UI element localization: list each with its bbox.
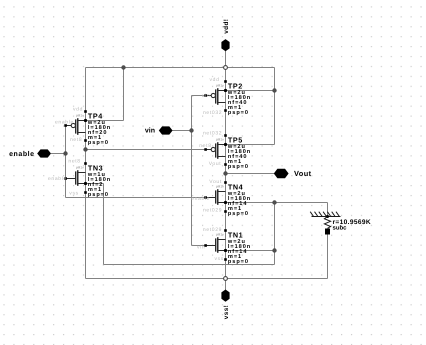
- NMOS transistor TN4: [191, 179, 251, 217]
- wire net032 TP2 to TP5: [225, 111, 227, 136]
- wire right vdd bulk rail vertical: [274, 68, 276, 145]
- node vdd connection circle: [224, 66, 228, 70]
- svg-text:pM1v: pM1v: [216, 184, 224, 188]
- wire resistor top lead: [327, 203, 329, 217]
- junction enable node: [63, 151, 67, 155]
- wire net029 TN4 to TN1: [225, 212, 227, 231]
- junction Vout node: [223, 171, 227, 175]
- wire enable riser TP4 gate to TN3 gate and below: [65, 126, 67, 198]
- junction TN1 bulk: [272, 248, 276, 252]
- wire TN4 bulk horizontal: [226, 202, 275, 204]
- wire vss pin stem: [225, 279, 227, 290]
- svg-text:net8: net8: [68, 158, 80, 164]
- NMOS transistor TN3: [48, 158, 111, 198]
- wire TP4 bulk horizontal: [86, 120, 124, 122]
- pin enable: [9, 149, 51, 158]
- wire TP5 bulk to rail: [226, 144, 275, 146]
- svg-text:pM1v: pM1v: [216, 83, 224, 87]
- substrate hatch bar: [310, 212, 340, 217]
- svg-text:TP2: TP2: [228, 81, 243, 90]
- PMOS transistor TP4: [55, 106, 111, 146]
- wire vdd pin stem: [225, 51, 227, 68]
- svg-text:TN1: TN1: [228, 230, 243, 239]
- wire TP4 bulk riser vertical: [123, 68, 125, 121]
- wire TN1 bulk down: [274, 251, 276, 265]
- wire TN3 source to vss rail: [85, 193, 87, 279]
- wire vin pin to junction: [172, 130, 191, 132]
- svg-text:Vout: Vout: [294, 169, 312, 178]
- node vss connection circle: [224, 277, 228, 281]
- junction bulk net / resistor: [272, 200, 276, 204]
- svg-text:TP5: TP5: [228, 135, 243, 144]
- wire TN3 bulk stub horizontal: [86, 183, 104, 185]
- svg-text:vdd: vdd: [73, 106, 83, 112]
- junction vin node: [189, 128, 193, 132]
- pin Vout: [274, 169, 312, 179]
- wire net8 TP4 drain to TN3 drain: [85, 141, 87, 164]
- wire enable to TN4 gate horizontal: [66, 197, 206, 199]
- wire vdd circle to TP2 top: [225, 68, 227, 82]
- svg-text:vss!: vss!: [223, 305, 230, 319]
- svg-text:psp=0: psp=0: [228, 259, 249, 265]
- subc substrate contact square: [325, 229, 330, 235]
- svg-text:net032: net032: [203, 131, 222, 137]
- svg-text:pM1v: pM1v: [76, 165, 84, 169]
- svg-text:TN3: TN3: [88, 163, 103, 172]
- svg-text:enable: enable: [191, 196, 210, 202]
- pin vdd!: [221, 19, 229, 52]
- PMOS transistor TP2: [202, 77, 251, 116]
- wire vin riser vertical: [191, 96, 193, 246]
- svg-text:enable: enable: [48, 176, 67, 182]
- wire Vout junction to pin: [226, 173, 275, 175]
- svg-text:psp=0: psp=0: [88, 140, 109, 146]
- wire enable pin to junction: [51, 153, 66, 155]
- wire vdd rail to TP4 top: [85, 68, 87, 112]
- pin vin: [145, 126, 173, 134]
- svg-text:net029: net029: [203, 227, 222, 233]
- PMOS transistor TP5: [199, 131, 251, 170]
- wire net8 to TP5 gate horizontal: [86, 149, 206, 151]
- wire bulk net to resistor column: [275, 202, 328, 204]
- svg-text:vss: vss: [69, 190, 78, 196]
- junction vdd rail / TP4 bulk riser: [121, 65, 125, 69]
- junction TP2 bulk / rail: [272, 88, 276, 92]
- svg-text:enable: enable: [55, 119, 74, 125]
- wire vin to TN1 gate: [192, 245, 206, 247]
- svg-text:enable: enable: [9, 150, 34, 158]
- wire resistor bottom lead: [327, 235, 329, 279]
- svg-text:psp=0: psp=0: [228, 164, 249, 170]
- wire bulk bottom horizontal to TN3: [104, 264, 275, 266]
- svg-text:vin: vin: [145, 127, 155, 135]
- svg-text:subc: subc: [333, 225, 348, 232]
- wire vdd rail horizontal: [86, 67, 275, 69]
- wire bulk riser TN4 to TN1: [274, 203, 276, 251]
- svg-text:Vout: Vout: [209, 161, 222, 167]
- svg-text:vss: vss: [215, 256, 224, 262]
- wire vin to TP2 gate: [192, 95, 206, 97]
- svg-text:pM1v: pM1v: [216, 137, 224, 141]
- svg-text:vin: vin: [197, 244, 205, 250]
- svg-text:TP4: TP4: [88, 111, 103, 120]
- NMOS transistor TN1: [197, 227, 251, 265]
- svg-text:pM1v: pM1v: [76, 113, 84, 117]
- svg-text:net032: net032: [203, 110, 222, 116]
- svg-text:net8: net8: [70, 137, 82, 143]
- junction net8 node: [83, 147, 87, 151]
- junction resistor / hatch bar: [326, 215, 329, 218]
- svg-text:psp=0: psp=0: [228, 110, 249, 116]
- svg-text:vin: vin: [202, 93, 210, 99]
- svg-text:psp=0: psp=0: [228, 211, 249, 217]
- svg-text:pM1v: pM1v: [216, 232, 224, 236]
- svg-text:psp=0: psp=0: [88, 192, 109, 198]
- svg-text:vdd: vdd: [210, 77, 220, 83]
- resistor R0 r=10.9569K zigzag body: [324, 217, 330, 229]
- wire TN1 bulk horizontal: [226, 250, 275, 252]
- wire vss rail horizontal: [86, 278, 328, 280]
- wire Vout TP5 to TN4: [225, 165, 227, 183]
- pin vss!: [221, 290, 229, 320]
- wire TN3 bulk column vertical: [103, 184, 105, 265]
- svg-text:vdd!: vdd!: [223, 19, 230, 34]
- svg-text:Vout: Vout: [209, 179, 222, 185]
- svg-text:net8: net8: [199, 143, 211, 149]
- wire TN1 source to vss rail: [225, 260, 227, 279]
- wire TP2 bulk to rail: [226, 90, 275, 92]
- svg-text:TN4: TN4: [228, 182, 243, 191]
- svg-text:net029: net029: [203, 208, 222, 214]
